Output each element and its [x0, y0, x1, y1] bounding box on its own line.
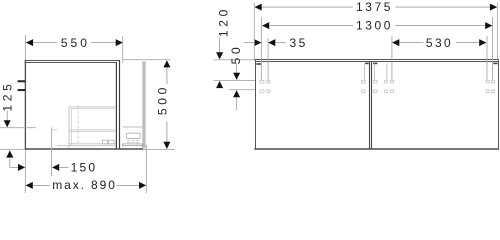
dim 35 left-pointing arrow — [268, 39, 275, 46]
dim 120 line — [219, 38, 221, 53]
svg-text:120: 120 — [216, 6, 230, 37]
rail end cap left — [122, 144, 124, 147]
bracket foot rects row1 — [260, 80, 264, 83]
svg-text:125: 125 — [1, 80, 15, 111]
front view right edge — [498, 60, 500, 150]
dim 1375 right arrow — [490, 4, 497, 11]
bracket hidden line mid b / 530 extension — [391, 36, 393, 81]
wall mounting tick lower — [18, 89, 26, 91]
dim 125 line — [6, 111, 8, 123]
bracket hidden line right inner / 530 extension — [486, 36, 488, 81]
dim 1300 left arrow — [262, 22, 269, 29]
dim 550 line — [26, 42, 57, 44]
drawer bottom line lower — [57, 145, 116, 147]
dim 35 leader left — [244, 42, 254, 44]
dim 120 up arrow — [216, 81, 223, 88]
dim 150 leader — [59, 166, 69, 168]
slide hardware rect 2 — [109, 140, 115, 144]
bottom reference line left of cabinet — [0, 148, 25, 150]
drawer mid line lower — [69, 131, 116, 133]
dim 1375 right extension — [496, 3, 498, 60]
cabinet left edge — [24, 60, 26, 150]
dim 500 up arrow — [163, 60, 170, 67]
cabinet front inner line — [115, 62, 117, 149]
dim 120 down arrow — [216, 52, 223, 59]
svg-text:550: 550 — [61, 36, 90, 50]
dim 50 down arrow — [233, 73, 240, 80]
dim 35 leader right — [275, 42, 285, 44]
gray front panel line outer — [144, 61, 146, 148]
svg-text:1375: 1375 — [356, 0, 393, 14]
front view second top line — [255, 61, 499, 63]
dim max890 left arrow — [26, 182, 33, 189]
dim 1375 left extension — [253, 3, 255, 60]
gray front panel line inner — [142, 61, 144, 148]
svg-text:35: 35 — [290, 36, 308, 50]
dim 50 line lower — [236, 98, 238, 111]
console top line — [25, 60, 120, 62]
bracket tab divider left — [365, 63, 368, 65]
slide dashes row2 — [127, 141, 140, 143]
svg-text:max. 890: max. 890 — [52, 178, 117, 192]
front view bottom — [254, 148, 499, 150]
front zone rail bottom — [123, 144, 143, 146]
bracket hidden line right outer / 1300 extension — [492, 17, 494, 80]
bottom leader vertical — [9, 157, 11, 167]
svg-text:500: 500 — [155, 84, 169, 115]
bracket tab right — [493, 63, 497, 65]
dim 150 right arrow — [52, 164, 59, 171]
dim 550 right arrow — [116, 39, 123, 46]
bottom up arrow — [6, 150, 13, 157]
rail line y80.6 — [214, 80, 255, 82]
wall mounting tick upper — [18, 80, 26, 82]
dim 125 down arrow — [4, 120, 11, 127]
divider line left — [369, 62, 371, 150]
bracket hidden line mid a — [386, 64, 388, 81]
svg-text:150: 150 — [71, 161, 98, 175]
bracket hidden line left inner — [267, 38, 269, 81]
siphon cutout vertical line — [51, 127, 53, 176]
dim max890 right extension — [145, 145, 147, 193]
cabinet front outer line — [119, 60, 121, 149]
dim 500 line — [166, 67, 168, 85]
dim 50 line upper — [236, 64, 238, 74]
front zone line a — [123, 143, 146, 145]
drawer bottom line upper — [69, 143, 116, 145]
dim 150 left arrow — [18, 164, 25, 171]
drawer mid line upper — [69, 129, 116, 131]
bracket tab left — [256, 63, 261, 65]
bottom leader elbow — [10, 166, 18, 168]
siphon cutout tick — [52, 129, 57, 131]
slide dashes row1 — [127, 139, 140, 141]
drawer rim second line — [71, 108, 116, 110]
dim 550 left arrow — [26, 39, 33, 46]
slide block — [126, 133, 140, 138]
dim 1300 right arrow — [485, 22, 492, 29]
drawer top rim — [69, 106, 116, 108]
rail line y89.7 — [229, 89, 255, 91]
drawer left wall inner — [70, 109, 72, 146]
drawer back dashed — [77, 106, 79, 143]
console underside line — [25, 62, 117, 64]
svg-text:530: 530 — [426, 36, 453, 50]
bracket hidden line divider a — [363, 64, 365, 81]
dim 50 up arrow — [233, 90, 240, 97]
dim 530 right arrow — [479, 39, 486, 46]
dim 530 left arrow — [392, 39, 399, 46]
dim 1375 line — [262, 6, 354, 8]
dim max890 right arrow — [139, 182, 146, 189]
divider line right — [371, 62, 373, 150]
dim 500 bottom extension — [143, 149, 175, 151]
front view top line — [254, 59, 499, 61]
dim 550 right extension — [122, 36, 124, 63]
rail end cap right — [141, 144, 143, 147]
rail line y59.8 left of cabinet — [214, 59, 255, 61]
drain level line — [0, 127, 36, 129]
dim 1300 line — [269, 25, 353, 27]
dim 1375 left arrow — [255, 4, 262, 11]
wire left vertical extension line full height — [24, 35, 26, 193]
slide hardware rect 1 — [102, 140, 107, 144]
dim 530 line — [399, 42, 424, 44]
bracket tab divider right — [373, 63, 377, 65]
front zone rail top — [123, 126, 146, 128]
cabinet bottom — [25, 148, 143, 150]
dim 500 down arrow — [163, 142, 170, 149]
front view left edge — [255, 60, 257, 150]
dim 35 right-pointing arrow — [254, 39, 261, 46]
bracket foot rects row2 — [260, 90, 264, 93]
svg-text:50: 50 — [229, 44, 243, 65]
bracket hidden line divider b — [373, 64, 375, 81]
drawer left wall — [68, 107, 70, 148]
dim max890 line — [33, 184, 50, 186]
bracket hidden line left outer — [260, 17, 262, 80]
svg-text:1300: 1300 — [356, 19, 393, 33]
dim 500 top extension — [123, 59, 171, 61]
